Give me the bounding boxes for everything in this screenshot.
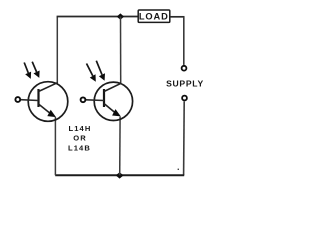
wire Q2 emitter lead (down to rail) <box>119 117 121 176</box>
wire Q2 base lead <box>86 99 104 102</box>
svg-text:OR: OR <box>73 134 87 143</box>
wire supply bottom vertical <box>183 101 186 175</box>
wire Q1 base lead <box>21 99 39 102</box>
light arrow 2 into Q1 <box>32 62 39 78</box>
Q2 emitter arrowhead <box>112 109 121 116</box>
svg-text:SUPPLY: SUPPLY <box>166 79 204 89</box>
phototransistor Q1 body <box>28 82 68 122</box>
Q2 emitter diagonal <box>104 104 115 113</box>
wire top rail right segment <box>170 16 185 18</box>
Q2 collector diagonal <box>104 83 121 91</box>
wire Q1 collector lead (vertical, left) <box>56 17 58 85</box>
light arrow 1 into Q1 <box>24 63 31 79</box>
svg-text:L14H: L14H <box>69 124 92 133</box>
wire Q1 emitter lead (down to rail) <box>54 117 56 175</box>
wire top rail left segment <box>57 16 139 18</box>
wire Q2 collector lead <box>120 17 122 84</box>
terminal Q2 base <box>81 97 86 102</box>
Q1 base bar <box>37 89 39 107</box>
wire bottom rail <box>55 174 184 176</box>
wire right vertical to supply top <box>183 17 185 65</box>
load resistor box <box>138 10 170 22</box>
Q2 base bar <box>103 89 105 107</box>
label L14H / OR / L14B <box>68 124 91 153</box>
light arrow 1 into Q2 <box>87 64 96 82</box>
Q1 emitter arrowhead <box>47 110 56 117</box>
node junction (top rail / Q2 collector) <box>117 13 124 19</box>
svg-text:LOAD: LOAD <box>139 12 169 22</box>
terminal Q1 base <box>15 97 20 102</box>
node junction (bottom rail / Q2 emitter) <box>116 172 124 178</box>
light arrow 2 into Q2 <box>96 61 105 81</box>
terminal supply - <box>182 96 187 101</box>
speckle <box>178 169 179 170</box>
Q1 emitter diagonal <box>39 104 51 114</box>
terminal supply + <box>182 66 187 71</box>
svg-text:L14B: L14B <box>68 144 91 153</box>
Q1 collector diagonal <box>39 83 58 92</box>
phototransistor Q2 body <box>94 82 132 120</box>
